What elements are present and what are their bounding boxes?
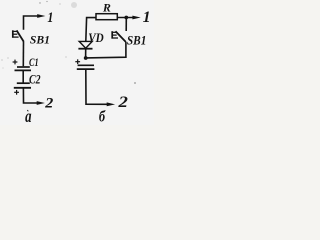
node 2 (terminal arrow, circuit b) bbox=[107, 102, 115, 106]
plus sign below C2 bbox=[14, 90, 19, 95]
diode VD bbox=[78, 41, 92, 48]
svg-text:2: 2 bbox=[117, 94, 128, 111]
svg-text:а: а bbox=[25, 106, 31, 125]
wire: circuit a bottom horizontal bbox=[23, 88, 37, 103]
junction node (top, circuit b) bbox=[124, 16, 128, 20]
junction node (middle, circuit b) bbox=[84, 56, 88, 60]
resistor R bbox=[96, 14, 117, 20]
plus sign of capacitor (circuit b) bbox=[75, 59, 80, 64]
svg-text:1: 1 bbox=[47, 10, 53, 26]
wire: resistor to node bbox=[117, 17, 133, 19]
wire: circuit b top-left corner to resistor bbox=[86, 18, 96, 42]
wire: SB1 bottom to horizontal (circuit b) bbox=[86, 42, 126, 58]
svg-text:R: R bbox=[102, 3, 111, 15]
wire: SB1 branch vertical (circuit b) bbox=[125, 19, 127, 31]
svg-text:SB1: SB1 bbox=[127, 32, 146, 47]
svg-text:VD: VD bbox=[88, 30, 104, 45]
node 1 (terminal arrow, circuit b) bbox=[132, 16, 140, 20]
wire: SB1 to C1 (circuit a) bbox=[22, 42, 24, 67]
svg-text:C2: C2 bbox=[29, 72, 41, 86]
wire: diode to junction (circuit b) bbox=[85, 49, 87, 58]
svg-text:SB1: SB1 bbox=[30, 35, 50, 47]
node 2 (terminal arrow, circuit a) bbox=[37, 101, 45, 105]
switch SB1 (circuit a, push-button) bbox=[13, 30, 24, 41]
plus sign of C1 bbox=[13, 60, 18, 65]
wire: circuit a top horizontal bbox=[24, 16, 39, 30]
svg-text:C1: C1 bbox=[29, 57, 39, 69]
wire: C1 to C2 bbox=[22, 71, 24, 83]
capacitor (circuit b, polarized) bbox=[77, 65, 95, 69]
capacitor C2 (polarized) bbox=[14, 83, 31, 88]
svg-text:б: б bbox=[99, 109, 106, 125]
capacitor C1 (polarized) bbox=[15, 67, 32, 70]
scan speckles bbox=[1, 2, 77, 69]
switch SB1 (circuit b, push-button) bbox=[112, 31, 126, 42]
node 1 (terminal arrow, circuit a) bbox=[37, 14, 45, 18]
svg-text:1: 1 bbox=[143, 9, 151, 26]
svg-text:2: 2 bbox=[44, 96, 54, 112]
wire: circuit b bottom horizontal bbox=[86, 70, 108, 105]
